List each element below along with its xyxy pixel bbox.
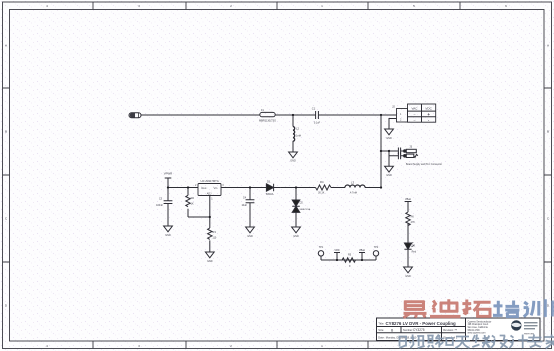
svg-text:4: 4 (46, 4, 48, 8)
svg-text:95134-1709: 95134-1709 (468, 330, 481, 332)
svg-text:2: 2 (230, 4, 232, 8)
svg-text:D1: D1 (267, 179, 271, 183)
svg-text:Title:: Title: (378, 322, 384, 326)
svg-text:VAC: VAC (412, 106, 419, 110)
svg-text:GND: GND (207, 260, 213, 263)
svg-text:VBatt: VBatt (359, 249, 365, 252)
svg-text:Vout: Vout (201, 186, 207, 190)
svg-text:Size:: Size: (378, 328, 384, 332)
svg-text:GND: GND (293, 235, 299, 238)
svg-text:1mH: 1mH (296, 135, 301, 138)
svg-text:Cypress Semiconductor: Cypress Semiconductor (468, 320, 492, 323)
svg-text:1: 1 (321, 344, 323, 348)
svg-text:5: 5 (413, 4, 415, 8)
svg-text:C1: C1 (312, 107, 316, 111)
svg-text:MBRS130LT3G: MBRS130LT3G (259, 120, 276, 123)
svg-text:Board Supply and PLC Connector: Board Supply and PLC Connector (406, 163, 442, 166)
svg-text:L3: L3 (351, 180, 354, 184)
svg-text:GND: GND (247, 235, 253, 238)
svg-text:470: 470 (411, 221, 416, 224)
svg-text:4: 4 (46, 344, 48, 348)
svg-text:B: B (547, 129, 549, 133)
svg-text:J2: J2 (392, 105, 395, 109)
svg-text:3: 3 (138, 4, 140, 8)
svg-text:Revision:: Revision: (443, 328, 454, 332)
svg-text:PERFORM: PERFORM (524, 333, 534, 335)
svg-text:100nF: 100nF (156, 204, 163, 207)
svg-text:GND: GND (386, 137, 392, 140)
svg-text:CY8276 LV DVR - Power Coupling: CY8276 LV DVR - Power Coupling (386, 321, 456, 326)
svg-text:Red: Red (412, 250, 417, 253)
svg-text:GND: GND (165, 234, 171, 237)
svg-text:0.1uF: 0.1uF (314, 122, 321, 125)
svg-text:6: 6 (505, 4, 507, 8)
svg-text:1K: 1K (191, 203, 194, 206)
svg-text:R2: R2 (191, 196, 195, 200)
svg-text:VDC: VDC (425, 106, 432, 110)
svg-text:GND: GND (405, 275, 411, 278)
svg-text:1: 1 (321, 4, 323, 8)
svg-text:Number:: Number: (403, 328, 413, 332)
svg-text:TP2: TP2 (374, 246, 379, 249)
svg-text:MMBZ20VA: MMBZ20VA (300, 208, 311, 211)
svg-text:GND: GND (290, 160, 296, 163)
svg-text:U2 LM317MTG: U2 LM317MTG (201, 179, 219, 183)
svg-text:30.1K: 30.1K (318, 192, 325, 195)
svg-text:3: 3 (138, 344, 140, 348)
svg-text:GND: GND (386, 174, 392, 177)
svg-text:San Jose, California: San Jose, California (468, 326, 489, 329)
svg-text:B: B (5, 129, 7, 133)
svg-text:VDD: VDD (334, 249, 339, 252)
svg-text:VPWR: VPWR (164, 172, 172, 176)
svg-text:R3: R3 (212, 230, 216, 234)
svg-text:198 Champion Court: 198 Champion Court (468, 323, 489, 326)
svg-text:L2: L2 (296, 127, 299, 131)
svg-text:Date:: Date: (378, 336, 384, 340)
svg-text:TP1: TP1 (319, 246, 324, 249)
svg-text:B340A: B340A (266, 193, 274, 196)
svg-text:Vin: Vin (214, 186, 218, 190)
svg-text:2: 2 (230, 344, 232, 348)
svg-text:4.7mH: 4.7mH (350, 192, 357, 195)
svg-text:R4: R4 (320, 180, 324, 184)
svg-text:VBatt: VBatt (405, 198, 411, 201)
svg-text:CY3275: CY3275 (413, 328, 425, 332)
svg-text:ADJ: ADJ (207, 192, 212, 195)
svg-text:10uF: 10uF (241, 204, 247, 207)
svg-text:110: 110 (212, 237, 217, 240)
svg-text:www.cypress.com: www.cypress.com (468, 332, 486, 335)
